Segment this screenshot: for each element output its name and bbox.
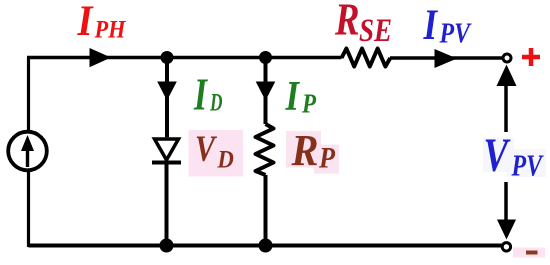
svg-text:V: V (484, 129, 512, 182)
svg-text:D: D (209, 90, 222, 117)
svg-text:P: P (301, 89, 316, 119)
svg-text:R: R (334, 0, 359, 45)
svg-text:P: P (318, 142, 335, 175)
svg-text:I: I (285, 74, 301, 120)
svg-text:I: I (77, 0, 94, 45)
svg-text:D: D (216, 147, 233, 174)
svg-text:V: V (195, 129, 218, 170)
svg-text:I: I (423, 2, 438, 49)
svg-text:SE: SE (359, 13, 392, 49)
svg-text:R: R (291, 125, 319, 175)
svg-text:PV: PV (439, 19, 472, 50)
svg-text:I: I (193, 69, 208, 120)
svg-text:PV: PV (511, 148, 544, 183)
svg-text:PH: PH (94, 17, 127, 44)
